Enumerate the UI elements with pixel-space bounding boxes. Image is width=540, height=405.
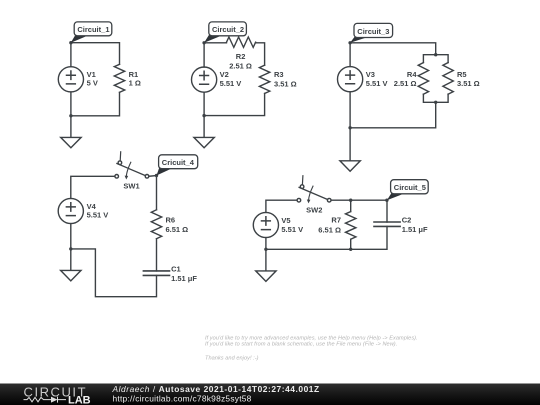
svg-text:SW1: SW1 <box>123 182 139 191</box>
svg-text:Cricuit_4: Cricuit_4 <box>162 158 195 167</box>
svg-text:C2: C2 <box>402 216 412 225</box>
svg-text:LAB: LAB <box>68 395 91 405</box>
svg-text:R5: R5 <box>457 70 467 79</box>
svg-text:Circuit_2: Circuit_2 <box>212 25 244 34</box>
svg-text:6.51 Ω: 6.51 Ω <box>166 225 189 234</box>
svg-text:V3: V3 <box>366 70 375 79</box>
svg-text:1 Ω: 1 Ω <box>129 79 141 88</box>
svg-text:V5: V5 <box>281 216 290 225</box>
svg-text:V2: V2 <box>220 70 229 79</box>
svg-text:5.51 V: 5.51 V <box>281 225 303 234</box>
svg-text:2.51 Ω: 2.51 Ω <box>394 79 417 88</box>
svg-text:5.51 V: 5.51 V <box>87 211 109 220</box>
svg-text:1.51 μF: 1.51 μF <box>402 225 428 234</box>
svg-text:R3: R3 <box>274 70 284 79</box>
svg-text:2.51 Ω: 2.51 Ω <box>229 62 252 71</box>
svg-text:R6: R6 <box>166 215 176 224</box>
svg-text:5 V: 5 V <box>87 79 98 88</box>
svg-text:SW2: SW2 <box>306 206 322 215</box>
svg-text:1.51 μF: 1.51 μF <box>171 274 197 283</box>
svg-text:V4: V4 <box>87 202 97 211</box>
svg-text:C1: C1 <box>171 265 181 274</box>
svg-text:If you'd like to start from a: If you'd like to start from a blank sche… <box>205 342 397 348</box>
svg-text:http://circuitlab.com/c78k98z5: http://circuitlab.com/c78k98z5syt58 <box>113 393 252 403</box>
svg-text:6.51 Ω: 6.51 Ω <box>318 225 341 234</box>
svg-text:R1: R1 <box>129 70 139 79</box>
svg-text:R7: R7 <box>331 216 341 225</box>
svg-text:V1: V1 <box>87 70 96 79</box>
svg-text:Thanks and enjoy! :-): Thanks and enjoy! :-) <box>205 355 259 361</box>
svg-text:If you'd like to try more adva: If you'd like to try more advanced examp… <box>205 335 418 341</box>
svg-text:R2: R2 <box>236 52 246 61</box>
svg-text:Circuit_3: Circuit_3 <box>357 27 389 36</box>
svg-text:R4: R4 <box>407 70 417 79</box>
svg-text:Circuit_1: Circuit_1 <box>77 25 109 34</box>
svg-text:3.51 Ω: 3.51 Ω <box>274 80 297 89</box>
svg-text:5.51 V: 5.51 V <box>366 79 388 88</box>
svg-text:Circuit_5: Circuit_5 <box>394 183 426 192</box>
svg-text:3.51 Ω: 3.51 Ω <box>457 79 480 88</box>
svg-text:5.51 V: 5.51 V <box>220 79 242 88</box>
